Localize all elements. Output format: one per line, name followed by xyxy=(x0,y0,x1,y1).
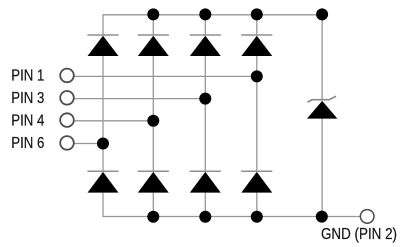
svg-text:PIN 3: PIN 3 xyxy=(11,90,44,107)
svg-text:PIN 4: PIN 4 xyxy=(11,112,44,129)
svg-text:PIN 6: PIN 6 xyxy=(11,135,44,152)
svg-text:PIN 1: PIN 1 xyxy=(11,68,44,85)
svg-text:GND (PIN 2): GND (PIN 2) xyxy=(321,226,397,243)
